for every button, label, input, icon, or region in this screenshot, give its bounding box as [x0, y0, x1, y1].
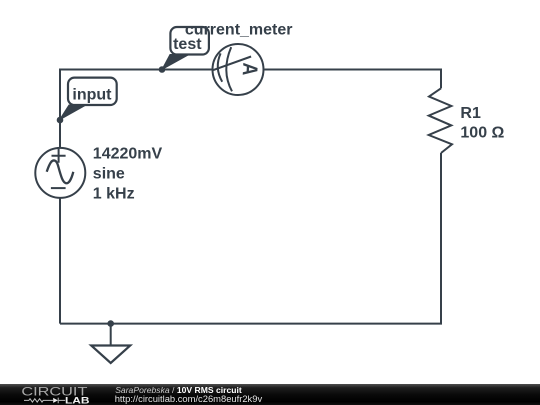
node flag input box [68, 78, 117, 105]
node dot input [57, 117, 64, 124]
svg-text:A: A [237, 62, 261, 76]
ground triangle [91, 346, 130, 364]
voltage source V1 circle [35, 148, 85, 198]
ammeter needle [213, 57, 251, 71]
ammeter U1 circle [213, 44, 264, 95]
wire left vertical lower [59, 198, 61, 324]
voltage source sine wave [47, 160, 74, 183]
svg-text:R1: R1 [460, 105, 481, 122]
node flag test box [170, 27, 209, 55]
resistor R1 [429, 88, 452, 153]
node flag input tail [59, 105, 86, 120]
node dot test [159, 66, 166, 73]
node dot ground [107, 320, 114, 327]
wire bottom [60, 323, 442, 325]
wire left vertical upper [59, 69, 61, 148]
svg-text:100 Ω: 100 Ω [460, 124, 504, 141]
ammeter scale arc inner [218, 53, 222, 81]
wire right vertical lower [440, 153, 442, 324]
voltage source value label [93, 145, 163, 202]
voltage source plus sign [52, 149, 66, 163]
svg-text:sine: sine [93, 165, 125, 182]
logo resistor-diode glyph [24, 398, 65, 404]
svg-text:LAB: LAB [65, 395, 90, 405]
svg-text:http://circuitlab.com/c26m8euf: http://circuitlab.com/c26m8eufr2k9v [115, 393, 263, 404]
svg-text:14220mV: 14220mV [93, 145, 163, 162]
ground stem [110, 324, 112, 346]
wire right vertical upper [440, 69, 442, 89]
ammeter scale arc outer [226, 47, 232, 91]
voltage source minus sign [51, 187, 66, 189]
wire top-right segment [265, 69, 442, 71]
svg-text:1 kHz: 1 kHz [93, 185, 135, 202]
node flag test tail [162, 55, 189, 70]
svg-text:current_meter: current_meter [185, 22, 293, 39]
svg-text:input: input [72, 86, 112, 103]
wire top-left segment [60, 69, 212, 71]
